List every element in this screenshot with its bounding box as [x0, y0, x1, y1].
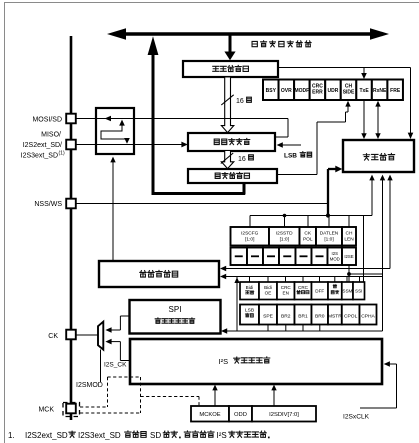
- svg-text:I²S: I²S: [217, 431, 227, 440]
- wire: MOSI to shift register MSB: [287, 119, 289, 138]
- svg-text:MCK: MCK: [38, 406, 54, 413]
- block: communication control 通信控制: [343, 140, 414, 172]
- svg-text:I2S2ext_SD: I2S2ext_SD: [25, 431, 68, 440]
- flags row: BSY OVR MODF CRCERR UDR CHSIDE TxE RxNE FRE: [263, 80, 279, 101]
- wire: I2SPR to clock generator: [214, 387, 216, 406]
- svg-text:MOSI/SD: MOSI/SD: [32, 116, 62, 123]
- mux: MOSI/MISO switch box: [96, 108, 134, 154]
- registers row3: BIDIMODE..SSI: [240, 282, 259, 300]
- svg-text:I2S: I2S: [332, 251, 339, 256]
- svg-text:LEN: LEN: [344, 237, 354, 243]
- svg-text:CRC: CRC: [281, 285, 292, 290]
- wire: LSB first input to shift register: [280, 144, 301, 146]
- svg-text:[1:0]: [1:0]: [280, 237, 289, 243]
- wire: I2S clock to mux: [108, 341, 120, 343]
- svg-text:I²S: I²S: [219, 357, 229, 366]
- block: I2S clock generator: [130, 339, 382, 384]
- svg-text:POL: POL: [303, 237, 313, 243]
- wire: NSS/WS to control: [76, 203, 328, 205]
- svg-text:1.: 1.: [8, 431, 15, 440]
- svg-text:DFF: DFF: [315, 289, 324, 294]
- wire: bracket feeding I2SCFGR row: [250, 215, 372, 217]
- svg-text:TxE: TxE: [359, 88, 369, 94]
- svg-text:16: 16: [236, 98, 244, 105]
- svg-text:I2SMOD: I2SMOD: [76, 382, 103, 389]
- svg-text:[1:0]: [1:0]: [245, 237, 254, 243]
- wire: BR bits to baud generator: [224, 330, 383, 332]
- svg-text:CH: CH: [346, 231, 353, 237]
- wire: rx buffer to CH SIDE flag: [278, 174, 318, 176]
- wire: MOSI/SD line: [75, 118, 288, 120]
- wire: MISO line to shift register: [75, 144, 185, 146]
- svg-text:OVR: OVR: [281, 88, 292, 94]
- svg-text:Bidi: Bidi: [264, 285, 272, 290]
- wire: mux select from main control: [112, 159, 114, 261]
- wire: I2SxCLK input: [360, 407, 397, 409]
- svg-text:Bidi: Bidi: [246, 285, 254, 290]
- border frame: [4, 3, 6, 443]
- svg-text:SD: SD: [150, 431, 161, 440]
- registers: MCKOE ODD I2SDIV[7:0]: [191, 406, 229, 422]
- svg-text:BR0: BR0: [315, 313, 325, 319]
- pin: MOSI/SD: [66, 114, 76, 124]
- svg-text:CPHA: CPHA: [361, 313, 375, 319]
- svg-text:I2SxCLK: I2SxCLK: [343, 414, 370, 421]
- svg-text:SSI: SSI: [355, 289, 362, 294]
- svg-text:CRC: CRC: [298, 285, 309, 290]
- svg-text:I2S_CK: I2S_CK: [104, 362, 127, 369]
- mux: CK clock select trapezoid: [98, 322, 103, 350]
- svg-text:ERR: ERR: [312, 90, 323, 96]
- svg-text:CK: CK: [304, 231, 311, 237]
- svg-text:MISO/: MISO/: [41, 132, 61, 139]
- svg-text:BR1: BR1: [298, 313, 308, 319]
- wire: CK pin to mux: [75, 334, 98, 336]
- wire: thick control bus to comm control: [327, 169, 329, 216]
- svg-text:I2SDIV[7:0]: I2SDIV[7:0]: [269, 412, 299, 418]
- block: SPI baud rate generator: [130, 300, 221, 334]
- wire: register bits up to comm control: [371, 177, 373, 216]
- svg-text:I2SCFG: I2SCFG: [241, 231, 259, 237]
- wire: mux select solid: [100, 350, 102, 383]
- svg-text:MCKOE: MCKOE: [199, 412, 220, 418]
- wire: to main control logic (row1/2 net): [223, 268, 391, 270]
- svg-text:OE: OE: [265, 291, 272, 296]
- svg-text:MODF: MODF: [295, 88, 310, 94]
- block: rx buffer 接收缓冲区: [188, 169, 277, 183]
- pin: CK: [66, 330, 76, 340]
- wire: 16-bit hollow arrow tx->shift: [221, 78, 233, 133]
- svg-text:(1): (1): [59, 150, 65, 156]
- block: main control logic 主控制逻辑: [99, 261, 219, 287]
- registers row2: reserved dashes, I2SMOD, I2SE: [231, 248, 248, 266]
- svg-text:I2S3ext_SD: I2S3ext_SD: [78, 431, 121, 440]
- wire: SPI baud to mux: [108, 329, 120, 331]
- pin: MISO: [66, 140, 76, 150]
- svg-text:RxNE: RxNE: [373, 88, 387, 94]
- svg-text:MSTR: MSTR: [328, 313, 342, 319]
- registers row1: I2SCFG I2SSTD CKPOL DATLEN CHLEN: [231, 227, 270, 246]
- wire: rx data to bus (thick up arrow): [152, 50, 155, 195]
- svg-text:I2S3ext_SD: I2S3ext_SD: [21, 153, 58, 160]
- registers row4: LSBFIRST..CPHA: [240, 305, 259, 325]
- svg-text:16: 16: [238, 156, 246, 163]
- svg-text:FRE: FRE: [390, 88, 401, 94]
- svg-text:BSY: BSY: [266, 88, 277, 94]
- svg-text:EN: EN: [283, 291, 289, 296]
- svg-text:LSB: LSB: [245, 308, 254, 314]
- wire: left pin rail: [70, 36, 73, 420]
- pin: NSS/WS: [66, 199, 76, 209]
- svg-text:NSS/WS: NSS/WS: [34, 201, 62, 208]
- wire: I2SE junction: [348, 263, 350, 282]
- svg-text:DATLEN: DATLEN: [320, 231, 339, 237]
- wire: tx buffer to TxE flag and comm control: [278, 67, 411, 69]
- svg-text:[1:0]: [1:0]: [324, 237, 333, 243]
- wire: RxNE flag to comm control (both arrows): [377, 104, 379, 137]
- wire: I2SMOD / MCKOE dashed control: [108, 376, 141, 378]
- svg-text:I2SE: I2SE: [344, 254, 353, 259]
- svg-text:BR2: BR2: [281, 313, 291, 319]
- svg-text:SPE: SPE: [263, 313, 274, 319]
- svg-text:CPOL: CPOL: [344, 313, 358, 319]
- svg-text:CK: CK: [48, 333, 58, 340]
- svg-text:MOD: MOD: [330, 257, 340, 262]
- svg-text:SSM: SSM: [342, 289, 352, 294]
- mux inner arrows: [105, 116, 112, 122]
- svg-text:SIDE: SIDE: [343, 90, 355, 96]
- wire: bus to tx buffer (thick down arrow): [229, 36, 232, 54]
- wire: row3 bracket to main control: [223, 276, 383, 278]
- wire: TxE flag down to comm control: [363, 101, 365, 137]
- bus: address and data bus: [122, 32, 373, 35]
- svg-text:SPI: SPI: [169, 305, 182, 314]
- block: tx buffer 发送缓冲区: [183, 61, 278, 77]
- pin: MCK (dashed optional): [63, 403, 80, 417]
- svg-text:I2S2ext_SD/: I2S2ext_SD/: [23, 142, 62, 149]
- svg-text:UDR: UDR: [328, 88, 339, 94]
- svg-text:I2SSTD: I2SSTD: [276, 231, 293, 237]
- svg-text:ODD: ODD: [234, 412, 247, 418]
- label: address/data bus (CJK): [252, 41, 257, 46]
- svg-text:LSB: LSB: [284, 153, 297, 160]
- block: shift register 移位寄存器: [188, 133, 275, 151]
- wire: 16-bit hollow arrow shift->rx: [221, 151, 233, 169]
